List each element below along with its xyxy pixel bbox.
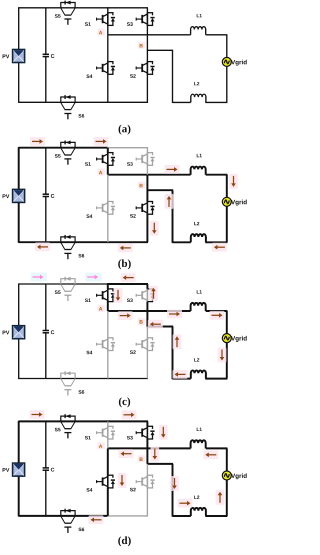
current arrow L xyxy=(35,243,50,252)
current arrow R xyxy=(178,499,193,508)
transistor S2 xyxy=(146,327,148,339)
current arrow R xyxy=(94,137,109,146)
current arrow L xyxy=(212,243,227,252)
solar panel PV xyxy=(13,50,25,63)
wire capacitor branch xyxy=(45,148,47,194)
wire node B net xyxy=(146,448,148,464)
voltage source Vgrid xyxy=(222,471,231,480)
inductor L2 xyxy=(191,508,206,516)
transistor S2 xyxy=(146,464,148,476)
capacitor C xyxy=(43,330,49,332)
transistor S6 xyxy=(61,237,75,242)
node A xyxy=(97,169,105,176)
wire node B net xyxy=(146,310,148,326)
wire grid bottom xyxy=(173,101,191,103)
wire node A to L1 and grid xyxy=(108,310,191,312)
transistor S5 xyxy=(61,279,75,284)
solar panel PV xyxy=(13,326,25,339)
wire bottom rail (DC-) xyxy=(19,515,108,517)
voltage source Vgrid xyxy=(222,197,231,206)
current arrow U xyxy=(165,194,174,209)
node B xyxy=(138,42,146,49)
current arrow U xyxy=(173,334,182,349)
caption (c) xyxy=(119,397,130,407)
current arrow L xyxy=(148,320,163,329)
wire bottom rail (DC-) xyxy=(19,378,108,380)
transistor S4 xyxy=(107,311,109,338)
current arrow R xyxy=(31,273,48,282)
transistor S3 xyxy=(146,8,148,13)
transistor S6 xyxy=(61,373,75,378)
voltage source Vgrid xyxy=(222,57,231,66)
wire top rail (DC+) xyxy=(19,420,108,422)
wire grid right xyxy=(226,448,228,471)
current arrow R xyxy=(122,410,137,419)
current arrow R xyxy=(30,137,45,146)
current arrow L xyxy=(173,370,188,379)
capacitor C xyxy=(43,467,49,469)
inductor L2 xyxy=(191,370,206,378)
wire left PV branch xyxy=(18,283,20,326)
transistor S4 xyxy=(107,175,109,202)
transistor S2 xyxy=(146,190,148,202)
transistor S5 xyxy=(61,416,75,421)
wire top rail (DC+) xyxy=(19,7,108,9)
current arrow D xyxy=(150,447,159,462)
wire top rail (DC+) xyxy=(19,147,108,149)
node A xyxy=(97,442,105,449)
voltage source Vgrid xyxy=(222,334,231,343)
current arrow R xyxy=(210,311,225,320)
current arrow R xyxy=(118,311,133,320)
transistor S1 xyxy=(107,284,109,289)
wire bottom rail (DC-) xyxy=(19,101,108,103)
transistor S1 xyxy=(107,148,109,153)
current arrow D xyxy=(218,348,227,363)
current arrow L xyxy=(118,244,133,253)
capacitor C xyxy=(43,193,49,195)
transistor S2 xyxy=(146,50,148,62)
current arrow R xyxy=(165,165,180,174)
wire left PV branch xyxy=(18,7,20,50)
wire left PV branch xyxy=(18,421,20,464)
solar panel PV xyxy=(13,189,25,202)
wire grid bottom xyxy=(173,378,191,380)
current arrow L xyxy=(203,450,218,459)
transistor S5 xyxy=(61,142,75,147)
wire bottom rail (DC-) xyxy=(19,241,108,243)
transistor S1 xyxy=(107,8,109,13)
wire left PV branch xyxy=(18,147,20,190)
transistor S3 xyxy=(146,148,148,153)
transistor S5 xyxy=(61,3,75,8)
node B xyxy=(138,455,146,462)
inductor L2 xyxy=(191,94,206,102)
caption (b) xyxy=(118,259,130,269)
transistor S3 xyxy=(146,284,148,289)
transistor S6 xyxy=(61,97,75,102)
transistor S3 xyxy=(146,421,148,426)
transistor S6 xyxy=(61,511,75,516)
current arrow D xyxy=(118,473,127,488)
current arrow L xyxy=(89,515,104,524)
current arrow R xyxy=(85,273,102,282)
node B xyxy=(138,182,146,189)
current arrow R xyxy=(167,310,182,319)
wire node B net xyxy=(146,174,148,190)
wire grid right xyxy=(226,311,228,334)
node B xyxy=(138,318,146,325)
wire node B net xyxy=(146,34,148,50)
transistor S4 xyxy=(107,35,109,62)
current arrow U xyxy=(216,490,225,505)
caption (d) xyxy=(118,536,130,546)
wire node A to L1 and grid xyxy=(108,174,191,176)
current arrow D xyxy=(159,425,168,440)
transistor S4 xyxy=(107,448,109,475)
current arrow D xyxy=(170,476,179,491)
current arrow L xyxy=(121,273,136,282)
current arrow L xyxy=(119,449,134,458)
current arrow D xyxy=(114,288,123,303)
wire top rail (DC+) xyxy=(19,283,108,285)
wire grid right xyxy=(226,175,228,198)
wire capacitor branch xyxy=(45,284,47,330)
inductor L2 xyxy=(191,234,206,242)
caption (a) xyxy=(119,125,131,135)
wire node A to L1 and grid xyxy=(108,447,191,449)
transistor S1 xyxy=(107,421,109,426)
current arrow D xyxy=(229,174,238,189)
wire node A to L1 and grid xyxy=(108,34,191,36)
current arrow U xyxy=(149,286,158,301)
capacitor C xyxy=(43,53,49,55)
inductor L1 xyxy=(191,303,206,311)
node A xyxy=(97,29,105,36)
solar panel PV xyxy=(13,463,25,476)
wire grid right xyxy=(226,35,228,58)
wire capacitor branch xyxy=(45,8,47,54)
wire grid bottom xyxy=(173,241,191,243)
current arrow R xyxy=(30,410,45,419)
inductor L1 xyxy=(191,440,206,448)
wire capacitor branch xyxy=(45,421,47,467)
node A xyxy=(97,305,105,312)
wire grid bottom xyxy=(173,515,191,517)
inductor L1 xyxy=(191,167,206,175)
current arrow D xyxy=(150,221,159,236)
inductor L1 xyxy=(191,27,206,35)
